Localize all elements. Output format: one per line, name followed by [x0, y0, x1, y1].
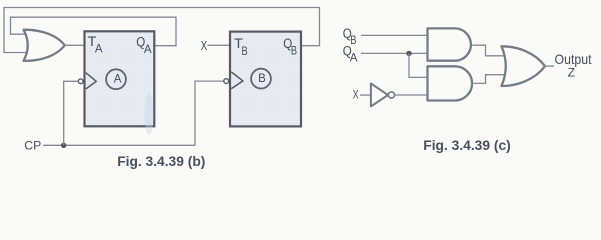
svg-text:B: B	[258, 73, 266, 85]
AND gate A1 (top)	[428, 28, 471, 60]
svg-text:Z: Z	[568, 65, 576, 79]
junction dot on CP line	[61, 143, 66, 148]
junction dot on QA line	[406, 51, 411, 56]
wire: CP line	[43, 144, 195, 146]
svg-text:Fig. 3.4.39 (b): Fig. 3.4.39 (b)	[117, 154, 205, 169]
wire: CP to flip-flop A clock	[64, 81, 79, 145]
circle marker B	[251, 69, 271, 89]
svg-text:X: X	[201, 38, 208, 53]
wire: AND1 output to OR upper input	[472, 45, 510, 56]
clock bubble flip-flop A	[78, 79, 83, 84]
inverter U1 (NOT gate on X)	[371, 84, 388, 107]
wire: QB to AND1	[361, 34, 428, 36]
wire: inverter output to AND2 lower input	[395, 94, 428, 96]
wire: OR output	[545, 65, 554, 67]
wire: X to TB input	[208, 44, 232, 46]
wire: QA branch to AND2 upper input	[409, 53, 428, 77]
AND gate A2 (bottom)	[428, 66, 473, 100]
OR gate G1 (fig b input gate)	[24, 30, 65, 61]
circle marker A	[106, 69, 126, 89]
svg-text:CP: CP	[24, 139, 41, 153]
wire: G1 output to TA input	[65, 44, 86, 46]
clock bubble flip-flop B	[224, 79, 229, 84]
wire: QA inner feedback loop (QA output to OR gate upper input)	[11, 17, 177, 46]
flip-flop B box	[230, 32, 301, 127]
svg-text:A: A	[350, 53, 358, 65]
svg-text:B: B	[242, 46, 248, 58]
wire: QB outer feedback loop (QB output to OR gate lower input)	[4, 8, 320, 53]
clock triangle flip-flop B	[231, 72, 243, 89]
inverter bubble	[388, 92, 394, 98]
scan artifact: blue smudge in flip-flop A	[145, 93, 154, 135]
wire: QA to AND1	[361, 52, 428, 54]
svg-text:X: X	[353, 88, 359, 102]
wire: CP to flip-flop B clock	[195, 81, 224, 145]
clock triangle flip-flop A	[86, 73, 96, 89]
flip-flop A box	[85, 31, 155, 126]
OR gate G2 (fig c output gate)	[502, 46, 546, 86]
wire: AND2 output to OR lower input	[473, 75, 510, 84]
svg-text:A: A	[144, 44, 152, 56]
svg-text:Fig. 3.4.39 (c): Fig. 3.4.39 (c)	[423, 138, 510, 153]
svg-text:B: B	[291, 45, 297, 57]
svg-text:A: A	[95, 44, 103, 56]
wire: X to inverter	[360, 94, 371, 96]
svg-text:A: A	[114, 74, 122, 86]
